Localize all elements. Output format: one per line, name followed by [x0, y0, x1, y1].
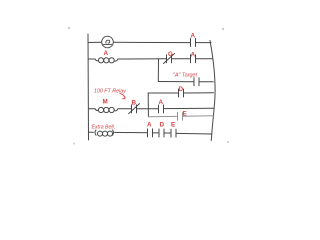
- branch E wire left (gray): [148, 115, 177, 117]
- junction vertical: [147, 93, 149, 117]
- contact E bars: [178, 113, 183, 121]
- contact A rung2 bars: [191, 55, 196, 63]
- branch E wire to rail (gray): [183, 115, 214, 117]
- seal branch vertical: [157, 59, 159, 82]
- svg-text:M: M: [103, 98, 108, 105]
- svg-text:A: A: [191, 51, 196, 58]
- bottom rung wire to contact A: [115, 131, 148, 133]
- bell B1 circle: [102, 36, 114, 48]
- svg-text:E: E: [171, 122, 175, 129]
- speck top-left: [68, 27, 70, 29]
- NC contact B bars: [132, 105, 137, 113]
- rung 2 wire mid: [172, 58, 191, 60]
- rung 2 wire to rail: [196, 58, 213, 60]
- svg-text:B: B: [132, 100, 137, 107]
- rung 4 wire to NC contact B: [118, 108, 132, 110]
- rung 2 wire to NC contact: [118, 58, 167, 60]
- svg-text:G: G: [168, 51, 173, 58]
- rung 1 wire to rail: [196, 42, 212, 44]
- speck top-right: [222, 28, 224, 30]
- coil Extra Bell paren right: [113, 130, 114, 135]
- bottom rung wire A-D: [153, 132, 160, 134]
- coil A (relay coil): [95, 59, 99, 61]
- bottom rung wire to rail: [176, 132, 212, 135]
- coil M (100 FT relay coil): [95, 109, 99, 111]
- rung 1 wire left: [88, 41, 102, 43]
- seal contact 'A' Target bars: [194, 78, 199, 86]
- svg-text:A: A: [147, 122, 152, 129]
- speck bottom-right: [227, 141, 229, 143]
- svg-text:Extra Bell,: Extra Bell,: [92, 125, 116, 131]
- branch D wire left: [148, 92, 178, 94]
- bottom contact D bars: [159, 129, 164, 137]
- bottom contact A bars: [148, 129, 153, 137]
- rung 4 wire to contact A: [137, 108, 159, 110]
- svg-text:A: A: [159, 99, 164, 106]
- rung 1 wire to contact A: [114, 41, 191, 43]
- svg-text:"A" Target: "A" Target: [173, 73, 198, 79]
- svg-text:D: D: [179, 86, 184, 93]
- svg-text:E: E: [183, 111, 187, 118]
- seal branch wire to rail: [199, 81, 213, 83]
- left rail: [87, 34, 90, 140]
- NC contact B slash: [129, 104, 140, 114]
- svg-text:A: A: [104, 50, 109, 57]
- coil Extra Bell paren left: [95, 130, 96, 135]
- bell B1 inner squiggle: [103, 40, 111, 44]
- bottom contact E bars: [171, 129, 176, 137]
- contact A rung4 bars: [159, 105, 164, 113]
- bottom rung wire D-E: [164, 132, 171, 134]
- seal branch wire left: [158, 81, 194, 83]
- contact D bars: [179, 89, 184, 97]
- coil Extra Bell loops: [98, 131, 103, 136]
- branch D wire to rail: [184, 92, 214, 94]
- right rail: [210, 41, 215, 141]
- rung 2 wire left: [88, 58, 95, 60]
- NC contact G bars: [167, 55, 172, 63]
- svg-text:D: D: [160, 122, 165, 129]
- bottom rung wire left: [89, 131, 94, 133]
- svg-text:A: A: [191, 33, 196, 40]
- rung 4 wire to rail: [164, 107, 215, 109]
- swoosh under Relay: [120, 94, 125, 99]
- rung 4 wire left: [89, 108, 96, 110]
- NC contact G slash: [164, 54, 175, 64]
- contact A rung1 bars: [191, 39, 196, 47]
- speck bottom-left: [73, 142, 75, 144]
